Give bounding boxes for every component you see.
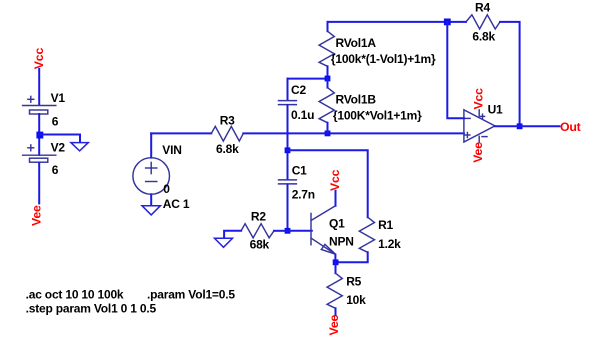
voltage source V1 (battery) [23, 96, 56, 114]
svg-text:R3: R3 [220, 113, 235, 127]
svg-text:Vee: Vee [327, 315, 341, 336]
wire R3 to op-amp + input (signal net) [243, 132, 464, 134]
ground (R2) [215, 238, 233, 247]
svg-text:R5: R5 [346, 274, 361, 288]
svg-text:0.1u: 0.1u [291, 108, 314, 122]
wire C2 top to RVol1 junction [288, 78, 328, 80]
capacitor C1 [279, 180, 297, 184]
resistor RVol1A bottom lead [327, 66, 329, 78]
svg-text:AC 1: AC 1 [163, 197, 190, 211]
svg-text:V2: V2 [51, 141, 66, 155]
node emitter [333, 259, 339, 265]
svg-text:{100K*Vol1+1m}: {100K*Vol1+1m} [333, 109, 422, 123]
ground (supply midpoint) [71, 143, 88, 151]
wire V2 to Vee [38, 163, 40, 204]
svg-text:6: 6 [52, 163, 59, 177]
node RVol1B bottom on signal net [325, 131, 331, 137]
resistor R5 bottom lead [335, 308, 337, 315]
resistor RVol1B [319, 88, 334, 123]
voltage source VIN [133, 158, 170, 195]
svg-text:R4: R4 [475, 0, 490, 14]
wire VIN bottom [150, 194, 152, 205]
resistor R4 [466, 15, 500, 29]
svg-text:Vee: Vee [30, 205, 44, 226]
resistor R2 [241, 224, 274, 238]
wire C1 bottom to base node [287, 184, 289, 230]
resistor RVol1B top lead [327, 79, 329, 88]
svg-text:.step param Vol1 0 1 0.5: .step param Vol1 0 1 0.5 [26, 301, 157, 315]
node RVol1A/RVol1B junction [325, 76, 331, 82]
resistor RVol1A [319, 31, 334, 66]
wire V1 to V2 [38, 114, 40, 155]
svg-text:68k: 68k [250, 238, 270, 252]
resistor R3 [211, 126, 243, 141]
svg-text:U1: U1 [488, 102, 503, 116]
resistor R1 [359, 217, 374, 252]
svg-text:RVol1B: RVol1B [336, 93, 377, 107]
svg-text:.ac oct 10 10 100k: .ac oct 10 10 100k [26, 288, 124, 302]
svg-text:Vee: Vee [471, 142, 485, 163]
voltage source V2 (battery) [23, 145, 56, 162]
svg-text:1.2k: 1.2k [378, 237, 401, 251]
wire R2 left to ground [224, 231, 241, 238]
svg-text:6.8k: 6.8k [216, 142, 239, 156]
svg-text:2.7n: 2.7n [292, 188, 315, 202]
svg-text:RVol1A: RVol1A [336, 36, 377, 50]
svg-text:VIN: VIN [162, 143, 181, 157]
svg-text:V1: V1 [51, 91, 66, 105]
node feedback top [444, 19, 451, 26]
wire collector to Vcc [335, 191, 337, 206]
wire VIN to R3 [151, 132, 211, 134]
svg-text:{100k*(1-Vol1)+1m}: {100k*(1-Vol1)+1m} [331, 52, 436, 66]
wire R1 bottom to emitter node [336, 252, 368, 262]
svg-text:.param Vol1=0.5: .param Vol1=0.5 [147, 288, 235, 302]
wire C2 bottom down through crossing to C1 [287, 105, 289, 179]
resistor R5 top lead [335, 262, 337, 273]
wire R4 right [500, 22, 520, 126]
svg-text:C2: C2 [291, 83, 306, 97]
transistor Q1 [311, 206, 336, 255]
wire node to ground [39, 135, 80, 143]
svg-text:R1: R1 [378, 218, 393, 232]
svg-text:0: 0 [163, 182, 170, 196]
svg-text:6.8k: 6.8k [472, 29, 495, 43]
top feedback wire [328, 21, 467, 23]
svg-text:NPN: NPN [329, 235, 354, 249]
wire op-amp output [495, 125, 560, 127]
wire VIN top [150, 133, 152, 157]
ground (VIN) [142, 206, 160, 215]
svg-text:Vcc: Vcc [32, 48, 46, 70]
resistor R5 [327, 273, 342, 308]
capacitor C2 [279, 101, 297, 105]
svg-text:10k: 10k [346, 293, 366, 307]
wire base [288, 230, 312, 232]
svg-text:6: 6 [52, 115, 59, 129]
svg-text:C1: C1 [292, 163, 307, 177]
svg-text:Vcc: Vcc [328, 169, 342, 191]
wire feedback down to inverting input [447, 22, 464, 118]
node signal/C-divider junction [285, 147, 291, 153]
resistor RVol1B bottom lead [327, 123, 329, 134]
op-amp U1 [464, 110, 495, 143]
wire node to R1 top [288, 150, 368, 217]
node output [517, 123, 523, 129]
svg-text:R2: R2 [251, 210, 266, 224]
wire Q1 emitter stub [334, 255, 336, 260]
resistor RVol1A top lead [327, 22, 329, 31]
wire R2 right [274, 230, 288, 232]
node between V1 and V2 [36, 132, 43, 139]
svg-text:Q1: Q1 [329, 216, 345, 230]
svg-text:Vcc: Vcc [471, 88, 485, 110]
node base junction [285, 228, 291, 234]
wire C2 top lead [287, 79, 289, 100]
svg-text:Out: Out [560, 120, 581, 134]
wire Vcc to V1 [38, 69, 40, 105]
